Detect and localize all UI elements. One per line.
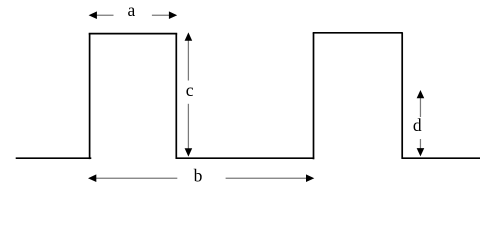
- svg-text:d: d: [413, 115, 422, 135]
- svg-text:b: b: [194, 166, 203, 186]
- svg-text:a: a: [128, 0, 136, 20]
- svg-text:c: c: [186, 80, 194, 100]
